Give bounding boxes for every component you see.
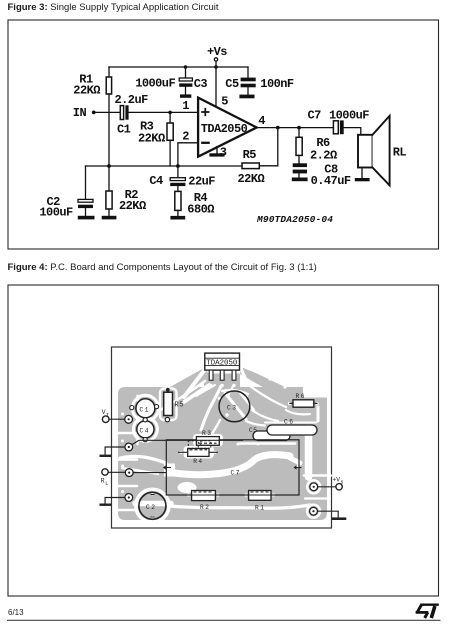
label R5 [243, 148, 257, 162]
capacitor C4 [170, 178, 185, 192]
component R4 outline [178, 449, 218, 466]
label 22KΩ R1 [73, 84, 100, 98]
label C3 [194, 77, 208, 91]
component R3 outline [131, 430, 244, 445]
svg-text:TDA2050: TDA2050 [206, 359, 237, 367]
ground R4 [170, 216, 185, 220]
svg-text:22KΩ: 22KΩ [73, 84, 100, 98]
component C5 outline [249, 427, 290, 441]
svg-text:s: s [341, 479, 344, 485]
resistor R3 [167, 123, 173, 140]
ground hook bottom-left [100, 498, 126, 506]
label pin 5 [221, 95, 228, 109]
node rail-pin5 junction [214, 65, 218, 69]
label 2.2Ω R6 [310, 148, 337, 162]
node pin2 junction [176, 164, 180, 168]
label 680Ω R4 [187, 202, 214, 216]
node rail-C3 junction [184, 65, 188, 69]
label C4 [149, 174, 163, 188]
svg-text:R4: R4 [193, 458, 203, 465]
capacitor C5 [241, 78, 256, 95]
svg-text:C4: C4 [140, 427, 150, 434]
component C4 outline [137, 418, 154, 442]
resistor R6 [296, 137, 302, 163]
component C1 outline [130, 399, 159, 418]
svg-text:RL: RL [393, 146, 407, 160]
svg-text:0.47uF: 0.47uF [311, 174, 351, 188]
copper comb under TDA2050 [204, 374, 240, 391]
wire C2 branch [85, 166, 87, 199]
pad ground right [310, 507, 318, 515]
dashed footprint squares [188, 441, 211, 448]
component TDA2050 package [205, 353, 240, 380]
svg-text:6/13: 6/13 [8, 608, 24, 617]
svg-text:+Vs: +Vs [207, 45, 227, 59]
terminal +Vs [318, 476, 344, 490]
ground hook top-left [100, 447, 126, 457]
ST logo [416, 604, 439, 618]
terminal Vi [102, 409, 125, 423]
label R4 [194, 191, 208, 205]
pad RL [125, 469, 133, 477]
white channels in copper [118, 367, 331, 522]
svg-text:2.2uF: 2.2uF [115, 93, 149, 107]
ground pin3 [209, 153, 224, 156]
label 22KΩ R5 [238, 172, 265, 186]
copper wing right of TDA2050 [240, 367, 314, 409]
SCHEMATIC [39, 45, 406, 225]
label C2 [47, 195, 61, 209]
resistor R2 [106, 191, 112, 216]
svg-text:+V: +V [333, 476, 341, 483]
label +Vs [207, 45, 227, 59]
capacitor C8 [293, 163, 307, 177]
svg-text:C4: C4 [149, 174, 163, 188]
svg-text:R1: R1 [255, 505, 265, 512]
svg-text:Figure 3: Single Supply Typica: Figure 3: Single Supply Typical Applicat… [8, 2, 219, 13]
pad ground bottom-left [125, 494, 133, 502]
wire R3 branch [169, 112, 171, 123]
svg-text:C6: C6 [284, 419, 294, 426]
wire C7 to speaker [344, 128, 361, 135]
label 100uF C2 [39, 206, 73, 220]
component C3 outline [219, 391, 250, 422]
capacitor C7 [333, 120, 343, 134]
component R5 outline [164, 388, 184, 422]
wire R6 branch [298, 128, 300, 138]
svg-text:R5: R5 [175, 402, 184, 410]
capacitor C1 [120, 105, 128, 119]
label R3 [140, 120, 154, 134]
PCB [100, 347, 347, 528]
resistor R1 [106, 77, 111, 94]
svg-text:1: 1 [182, 99, 189, 113]
svg-text:R2: R2 [200, 504, 210, 511]
ground hook right [318, 511, 347, 520]
label 22KΩ R3 [138, 132, 165, 146]
svg-text:TDA2050: TDA2050 [201, 122, 248, 136]
svg-text:R6: R6 [296, 393, 306, 400]
component R6 outline [289, 393, 317, 407]
label C1 [117, 122, 131, 136]
svg-text:L: L [105, 481, 108, 487]
label minus input [202, 142, 208, 144]
svg-text:C7: C7 [308, 109, 322, 123]
label pin 2 [182, 129, 189, 143]
svg-text:C2: C2 [146, 504, 156, 511]
svg-text:2.2Ω: 2.2Ω [310, 148, 337, 162]
svg-text:C3: C3 [227, 405, 237, 412]
wire IN to C1 [96, 111, 120, 113]
svg-text:C5: C5 [249, 427, 257, 434]
wire +Vs supply rail [109, 66, 248, 68]
footer rule [7, 619, 441, 621]
label 100nF C5 [260, 77, 294, 91]
node +Vs terminal [214, 58, 217, 67]
component C7 outline [164, 440, 302, 495]
ground C5 [239, 95, 254, 99]
pcb board outline [112, 347, 332, 528]
svg-text:IN: IN [73, 106, 87, 120]
label 1000uF C7 [329, 108, 369, 122]
svg-text:R5: R5 [243, 148, 257, 162]
wire pin2 branch [178, 143, 198, 166]
node output-feedback junction [276, 126, 280, 130]
footer page number [8, 608, 24, 617]
component R1 outline [249, 491, 271, 512]
svg-text:R: R [101, 478, 105, 485]
svg-text:R3: R3 [202, 430, 212, 437]
label pin 3 [220, 146, 227, 160]
ground speaker [355, 178, 370, 181]
label 22uF C4 [188, 175, 215, 189]
ground C3 [180, 94, 191, 97]
label TDA2050 [201, 122, 248, 136]
label R2 [125, 188, 139, 202]
pad +Vs [310, 483, 318, 491]
speaker RL [358, 116, 390, 186]
ground R2 [102, 216, 117, 220]
svg-text:C1: C1 [140, 406, 150, 413]
svg-text:3: 3 [220, 146, 227, 160]
component C6 outline [267, 419, 317, 436]
svg-text:22KΩ: 22KΩ [119, 199, 146, 213]
wire pin5 [215, 67, 217, 106]
node divider junction [107, 164, 111, 168]
svg-text:100uF: 100uF [39, 206, 73, 220]
component C2 outline [139, 492, 166, 519]
wire output [257, 127, 333, 129]
svg-text:5: 5 [221, 95, 228, 109]
op-amp U1 TDA2050 [198, 98, 257, 157]
pad input [125, 415, 133, 423]
copper wing left of TDA2050 [152, 368, 211, 410]
ground C2 [78, 216, 95, 220]
label C5 [225, 77, 239, 91]
caption figure 3 [8, 2, 219, 13]
label RL [393, 146, 407, 160]
node pin1 junction [168, 111, 172, 115]
wire C3 branch [185, 67, 187, 78]
capacitor C3 [179, 78, 192, 94]
ground C8 [292, 178, 308, 182]
svg-text:1000uF: 1000uF [329, 108, 369, 122]
svg-text:C5: C5 [225, 77, 239, 91]
label 1000uF C3 [135, 77, 175, 91]
capacitor C2 [78, 199, 93, 215]
wire bias node line [86, 165, 243, 167]
label R1 [79, 73, 93, 87]
white halo around TDA2050 package [201, 349, 244, 374]
white clearing top right [303, 387, 328, 398]
svg-text:Figure 4: P.C. Board and Compo: Figure 4: P.C. Board and Components Layo… [8, 262, 317, 273]
svg-text:22uF: 22uF [188, 175, 215, 189]
white patches in copper [164, 434, 223, 493]
caption figure 4 [8, 262, 317, 273]
component R2 outline [192, 491, 216, 511]
wire R3 to node line [169, 140, 171, 166]
drill holes [121, 368, 319, 519]
svg-text:4: 4 [258, 114, 265, 128]
svg-text:2: 2 [182, 129, 189, 143]
svg-text:100nF: 100nF [260, 77, 294, 91]
svg-text:C3: C3 [194, 77, 208, 91]
schematic frame [8, 20, 439, 249]
svg-text:I: I [106, 412, 109, 418]
label 22KΩ R2 [119, 199, 146, 213]
svg-text:1000uF: 1000uF [135, 77, 175, 91]
wire C5 branch [247, 67, 249, 78]
node IN terminal [92, 111, 96, 115]
label C8 [324, 163, 338, 177]
pad ground top-left [125, 443, 133, 451]
label pin 1 [182, 99, 189, 113]
svg-text:680Ω: 680Ω [187, 202, 214, 216]
wire R1 to node [108, 94, 110, 166]
label pin 4 [258, 114, 265, 128]
label 0.47uF C8 [311, 174, 351, 188]
label IN [73, 106, 87, 120]
wire C4 branch [177, 166, 179, 178]
resistor R4 [175, 191, 181, 216]
label plus input [202, 109, 209, 116]
resistor R5 [242, 163, 259, 169]
terminal RL [101, 469, 167, 487]
copper pour main mass [118, 349, 327, 520]
label 2.2uF [115, 93, 149, 107]
pin3 ground stub [216, 147, 218, 154]
wire R2 branch [108, 166, 110, 191]
svg-text:22KΩ: 22KΩ [238, 172, 265, 186]
wire R1 branch upper [108, 67, 110, 77]
svg-text:C1: C1 [117, 122, 131, 136]
label M90TDA2050-04 [256, 214, 333, 225]
svg-text:M90TDA2050-04: M90TDA2050-04 [256, 214, 333, 225]
wire C1 to pin1 [129, 111, 198, 113]
wire feedback drop [260, 128, 278, 166]
svg-text:22KΩ: 22KΩ [138, 132, 165, 146]
node output-zobel junction [297, 126, 301, 130]
label R6 [316, 136, 330, 150]
label C7 [308, 109, 322, 123]
pcb frame [8, 285, 439, 596]
svg-text:C7: C7 [231, 470, 241, 477]
